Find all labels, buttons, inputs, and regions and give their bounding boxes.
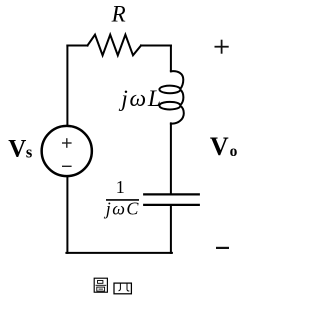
svg-text:1: 1 xyxy=(116,177,125,197)
svg-text:V: V xyxy=(8,136,26,163)
svg-text:V: V xyxy=(210,132,229,161)
svg-text:jωL: jωL xyxy=(118,86,163,112)
svg-text:s: s xyxy=(26,142,33,161)
svg-text:R: R xyxy=(111,1,126,26)
svg-text:o: o xyxy=(230,143,238,160)
svg-text:jωC: jωC xyxy=(104,199,140,219)
